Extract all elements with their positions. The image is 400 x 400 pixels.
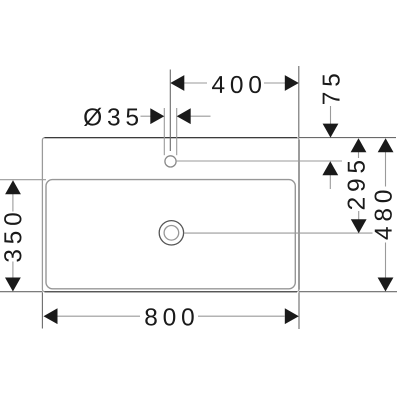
75 tails — [330, 106, 332, 125]
800 left arrow — [44, 308, 58, 324]
outer rim right edge — [298, 140, 300, 290]
inner basin rounded rect — [46, 180, 295, 289]
bottom edge extended left — [0, 291, 42, 293]
label 800 — [145, 308, 193, 325]
hole center line to right — [177, 160, 342, 162]
Ø35 leader tails — [141, 115, 152, 117]
arrowheads — [5, 75, 394, 324]
Ø35 left arrow — [150, 108, 164, 124]
drain inner circle — [164, 226, 179, 241]
top edge extended right — [299, 137, 396, 139]
295 bottom arrow — [351, 219, 367, 233]
drain center line to right — [184, 232, 373, 234]
faucet hole — [165, 156, 176, 167]
drain outer circle — [159, 221, 183, 245]
480 bottom arrow — [378, 278, 394, 292]
400 right arrow — [285, 75, 299, 91]
350 top arrow — [5, 180, 21, 194]
295 top arrow — [351, 138, 367, 152]
800 right arrow — [285, 308, 299, 324]
dimension texts — [4, 74, 392, 325]
label 75 — [323, 74, 340, 104]
480 line segments — [385, 152, 387, 187]
350 bottom arrow — [5, 278, 21, 292]
right edge extended up (400 ext) — [298, 66, 300, 138]
faucet hole centerline up (400 left ext) — [169, 70, 171, 152]
left edge extended down — [41, 292, 43, 328]
outer rim bottom edge — [45, 291, 298, 293]
label Ø35 — [84, 108, 138, 126]
gray dimension / extension lines — [0, 83, 386, 316]
label 350 — [4, 213, 21, 262]
label 400 — [212, 76, 261, 93]
Ø35 right arrow — [177, 108, 191, 124]
295 tails — [358, 152, 360, 159]
75 bottom arrow — [322, 161, 338, 175]
800 dimension line segments — [57, 315, 140, 317]
400 dimension line segments — [170, 82, 207, 84]
right edge extended down — [298, 292, 300, 329]
label 295 — [348, 161, 365, 209]
outer rim top edge — [45, 137, 298, 139]
480 top arrow — [378, 138, 394, 152]
350 tails — [12, 194, 14, 212]
inner top edge extended left — [0, 179, 46, 181]
extension lines: rim edges extended — [0, 66, 397, 329]
400 left arrow — [170, 75, 184, 91]
label 480 — [375, 191, 392, 240]
washbasin outer rim (top view) — [42, 138, 299, 292]
Ø35 extension lines — [163, 108, 165, 155]
75 top arrow — [323, 124, 339, 138]
bottom edge extended right — [299, 291, 397, 293]
